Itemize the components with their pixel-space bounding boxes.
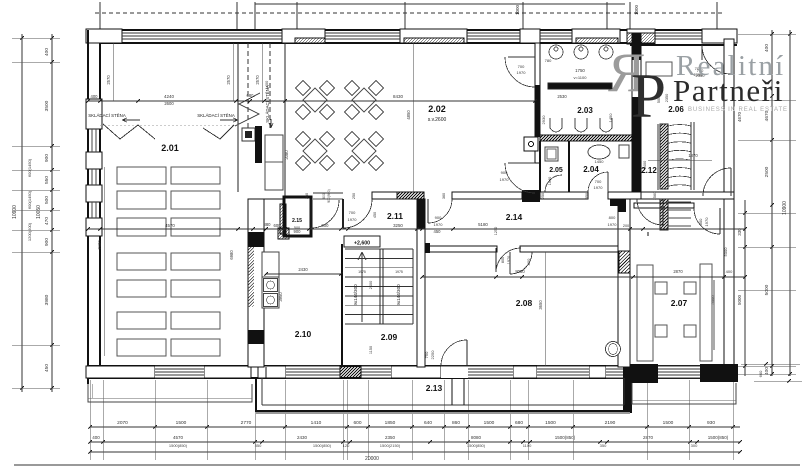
room 2.06 stair rail bbox=[690, 122, 692, 190]
svg-text:600: 600 bbox=[274, 223, 282, 228]
top wall outer line bbox=[86, 29, 737, 31]
room 2.05 fixture bbox=[545, 147, 558, 161]
svg-text:4570: 4570 bbox=[173, 435, 184, 440]
door 2.08 to terrace bbox=[441, 366, 468, 378]
door 2.08 from corridor bbox=[495, 248, 497, 272]
svg-text:2350: 2350 bbox=[385, 435, 396, 440]
wall 2.06 bottom bbox=[641, 192, 734, 199]
svg-text:8080: 8080 bbox=[515, 269, 525, 274]
svg-text:400: 400 bbox=[726, 269, 733, 274]
svg-text:250: 250 bbox=[352, 193, 356, 199]
svg-text:700: 700 bbox=[595, 179, 602, 184]
right overall chain 10900 bbox=[789, 30, 791, 376]
wall strip x248 vertical bbox=[248, 199, 264, 367]
svg-text:2500: 2500 bbox=[764, 166, 770, 177]
svg-text:900: 900 bbox=[44, 238, 50, 246]
room 2.02 chair group A bbox=[303, 88, 327, 112]
svg-text:900: 900 bbox=[322, 223, 330, 228]
svg-text:470: 470 bbox=[44, 217, 50, 225]
wall 2.10 top bbox=[264, 198, 284, 200]
svg-text:1500: 1500 bbox=[176, 420, 187, 426]
room 2.04 wc bbox=[619, 145, 629, 158]
room 2.03 urinals bbox=[550, 118, 562, 132]
room 2.08 basin bbox=[606, 342, 621, 357]
bottom overall chain 20000 bbox=[90, 451, 740, 453]
svg-text:2.11: 2.11 bbox=[387, 211, 403, 221]
terrace 2.13 outline bbox=[256, 366, 630, 411]
fire box on wall 2.02 bbox=[524, 137, 538, 151]
svg-text:2400: 2400 bbox=[369, 281, 373, 289]
staircase center rail bbox=[379, 249, 381, 324]
2.10 dims bbox=[266, 273, 341, 275]
svg-text:750: 750 bbox=[424, 351, 429, 358]
svg-text:2.13: 2.13 bbox=[426, 383, 443, 393]
door 2.08 interior bbox=[510, 252, 532, 274]
top wall inner line bbox=[100, 42, 630, 44]
svg-text:500: 500 bbox=[294, 226, 300, 230]
bottom wall piers bbox=[86, 366, 155, 378]
folding wall track dashed bbox=[100, 124, 238, 126]
corridor wall block B bbox=[610, 199, 627, 206]
bottom wall hatch block bbox=[328, 366, 376, 378]
svg-text:2570: 2570 bbox=[255, 75, 260, 85]
top solid line bbox=[255, 3, 625, 5]
svg-text:800: 800 bbox=[501, 257, 505, 263]
svg-text:3250: 3250 bbox=[393, 223, 403, 228]
svg-text:2.04: 2.04 bbox=[583, 165, 599, 174]
top wall window glazing bbox=[122, 32, 282, 34]
door 2.02 lower right bbox=[505, 163, 535, 193]
svg-text:3950: 3950 bbox=[278, 292, 283, 302]
corridor wall block A bbox=[522, 190, 540, 202]
svg-text:2870: 2870 bbox=[643, 435, 654, 440]
svg-text:1970: 1970 bbox=[348, 217, 358, 222]
wall 2.10 left hatch bbox=[188, 247, 315, 307]
wall 2.04 fixtures wall bbox=[539, 141, 541, 192]
svg-text:4670: 4670 bbox=[737, 111, 742, 122]
right inner chain bbox=[744, 200, 746, 376]
svg-text:1500(850): 1500(850) bbox=[555, 435, 576, 440]
right extension ticks bbox=[738, 33, 796, 35]
corridor lower wall y246 (2.08 top) bbox=[422, 246, 497, 252]
svg-text:2070: 2070 bbox=[117, 420, 128, 426]
svg-text:1500(850): 1500(850) bbox=[467, 443, 486, 448]
door 2.06 top bbox=[702, 45, 731, 74]
door 2.11 leaf bbox=[342, 199, 344, 228]
svg-text:3500: 3500 bbox=[44, 100, 50, 111]
room 2.12 hatch bbox=[629, 199, 702, 230]
svg-text:1410: 1410 bbox=[311, 420, 322, 426]
svg-text:640: 640 bbox=[424, 420, 432, 426]
bottom chain row 1 bbox=[90, 426, 740, 428]
svg-text:930: 930 bbox=[707, 420, 715, 426]
stairwell left wall bbox=[341, 244, 343, 367]
room 2.04 sink oval bbox=[588, 145, 610, 159]
porch bottom-left bbox=[88, 384, 252, 402]
wall 2.02 left bbox=[284, 43, 286, 199]
room 2.06 winder treads bbox=[668, 125, 691, 127]
door 2.14 to 2.07 area bbox=[662, 199, 664, 225]
svg-text:1500: 1500 bbox=[484, 420, 495, 426]
wall 2.12 area bbox=[647, 232, 649, 236]
staircase up arrow bbox=[358, 252, 366, 322]
svg-text:1400: 1400 bbox=[265, 81, 269, 89]
svg-text:3650: 3650 bbox=[538, 300, 543, 310]
svg-text:1970: 1970 bbox=[500, 177, 510, 182]
svg-text:1250: 1250 bbox=[494, 227, 498, 235]
svg-text:2.12: 2.12 bbox=[641, 166, 657, 175]
svg-text:4570: 4570 bbox=[165, 223, 175, 228]
door to 2.04 bbox=[607, 172, 609, 192]
svg-text:2.07: 2.07 bbox=[671, 298, 688, 308]
bottom wall bbox=[88, 365, 734, 367]
svg-text:350: 350 bbox=[600, 443, 607, 448]
wall 2.05/2.04 vertical bbox=[568, 141, 570, 192]
svg-text:2.15: 2.15 bbox=[292, 218, 302, 224]
svg-text:1970: 1970 bbox=[434, 222, 444, 227]
svg-text:880: 880 bbox=[264, 222, 272, 227]
svg-text:5000: 5000 bbox=[737, 294, 742, 305]
room 2.01 tables bbox=[117, 167, 166, 184]
bottom wall windows bbox=[155, 366, 204, 378]
wall 2.03 east vertical bbox=[632, 33, 641, 192]
svg-text:900(900): 900(900) bbox=[327, 189, 331, 203]
svg-text:SKLÁDACÍ STĚNA: SKLÁDACÍ STĚNA bbox=[197, 113, 235, 118]
corridor wall hatch bbox=[390, 192, 433, 199]
right corner dims bbox=[741, 363, 800, 365]
svg-text:2.01: 2.01 bbox=[161, 143, 179, 153]
room 2.03 shelf bbox=[548, 83, 612, 89]
wall 2.02/2.03 vertical bbox=[535, 43, 540, 163]
svg-text:1200(500): 1200(500) bbox=[27, 222, 32, 241]
svg-text:2530: 2530 bbox=[557, 94, 567, 99]
room 2.07 tv line bbox=[713, 280, 715, 350]
vertical dim 7480 bbox=[103, 167, 105, 356]
right segment chain bbox=[771, 30, 773, 376]
wall 2.08/2.07 hatch bbox=[597, 251, 653, 273]
svg-text:1150: 1150 bbox=[369, 346, 373, 354]
svg-text:20000: 20000 bbox=[365, 456, 379, 462]
svg-text:800: 800 bbox=[698, 218, 703, 225]
terrace entrance stub bbox=[451, 378, 453, 405]
svg-text:1975: 1975 bbox=[358, 270, 366, 274]
svg-text:250: 250 bbox=[541, 193, 545, 199]
svg-text:600: 600 bbox=[353, 420, 361, 426]
top wall piers bbox=[86, 29, 122, 43]
svg-text:5000: 5000 bbox=[710, 295, 715, 305]
folding wall pocket dashed lines bbox=[247, 43, 249, 130]
bottom chain row 2 bbox=[90, 441, 740, 443]
room 2.03 sinks bbox=[549, 45, 563, 59]
svg-text:2.05: 2.05 bbox=[549, 167, 563, 174]
svg-text:1970: 1970 bbox=[594, 185, 604, 190]
svg-text:2080: 2080 bbox=[284, 150, 289, 160]
svg-text:2930: 2930 bbox=[541, 115, 546, 125]
svg-text:800: 800 bbox=[609, 215, 616, 220]
svg-text:600(1450): 600(1450) bbox=[27, 158, 32, 177]
svg-text:1970: 1970 bbox=[517, 70, 527, 75]
svg-text:450: 450 bbox=[373, 212, 377, 218]
room 2.15 hatch corner bbox=[267, 228, 302, 239]
svg-text:1850: 1850 bbox=[385, 420, 396, 426]
svg-text:2190: 2190 bbox=[605, 420, 616, 426]
svg-text:1000: 1000 bbox=[515, 4, 520, 15]
svg-text:2430: 2430 bbox=[297, 435, 308, 440]
svg-text:7480: 7480 bbox=[97, 240, 102, 250]
svg-text:+2,600: +2,600 bbox=[354, 241, 370, 247]
svg-text:2.03: 2.03 bbox=[577, 106, 593, 115]
svg-text:1500(850): 1500(850) bbox=[169, 443, 188, 448]
svg-text:P: P bbox=[631, 61, 666, 131]
door corridor to 2.02 bbox=[310, 199, 312, 228]
top wall hatch strips bbox=[290, 38, 331, 43]
svg-text:680: 680 bbox=[247, 93, 255, 98]
upper interior dim line y101 bbox=[88, 100, 535, 102]
svg-text:600(1450): 600(1450) bbox=[27, 190, 32, 209]
svg-text:1870: 1870 bbox=[688, 153, 698, 158]
svg-text:350: 350 bbox=[305, 193, 309, 199]
door 2.07 top bbox=[719, 208, 721, 234]
vertical dim 4850 bbox=[412, 43, 414, 192]
svg-text:2570: 2570 bbox=[226, 75, 231, 85]
svg-text:400: 400 bbox=[92, 435, 100, 440]
svg-text:8430: 8430 bbox=[393, 94, 404, 99]
svg-text:2570: 2570 bbox=[106, 75, 111, 85]
svg-text:550: 550 bbox=[44, 176, 50, 184]
svg-text:2.09: 2.09 bbox=[381, 332, 398, 342]
svg-text:350: 350 bbox=[585, 193, 589, 199]
terrace shadow line bbox=[256, 412, 630, 414]
folding wall zigzag vertical bbox=[235, 93, 260, 126]
svg-text:900: 900 bbox=[501, 170, 508, 175]
svg-text:350: 350 bbox=[255, 443, 262, 448]
mid dim chain y229 bbox=[88, 228, 745, 230]
left wall bbox=[87, 30, 89, 384]
room 2.07 sofa right bbox=[700, 264, 712, 361]
room 2.15 walls bbox=[284, 197, 311, 236]
wall 2.03/2.04 hatched band bbox=[534, 135, 639, 141]
door 2.06 to 2.12 bbox=[703, 168, 731, 196]
svg-text:1500: 1500 bbox=[545, 420, 556, 426]
svg-text:1500: 1500 bbox=[663, 420, 674, 426]
svg-text:SKLÁDACÍ STĚNA: SKLÁDACÍ STĚNA bbox=[265, 85, 270, 123]
left wall piers and windows bbox=[86, 99, 102, 129]
svg-text:10050: 10050 bbox=[36, 205, 42, 219]
svg-text:v=1100: v=1100 bbox=[574, 75, 588, 80]
room 2.15 hatch left bbox=[250, 204, 319, 234]
2.08 dims bbox=[544, 252, 546, 366]
room 2.12 treads bbox=[668, 201, 691, 203]
wall 2.07 top bbox=[634, 203, 694, 208]
svg-text:1560: 1560 bbox=[653, 192, 657, 200]
bottom extension lines bbox=[89, 380, 91, 460]
svg-text:2430: 2430 bbox=[298, 267, 308, 272]
svg-text:200: 200 bbox=[623, 224, 629, 228]
dim line y277 through 2.08 and 2.07 bbox=[422, 276, 745, 278]
svg-text:2600: 2600 bbox=[164, 101, 174, 106]
bottom border line bbox=[14, 464, 800, 466]
svg-text:1500(850): 1500(850) bbox=[708, 435, 729, 440]
folding wall zigzag 1 bbox=[103, 124, 155, 139]
bottom wall solid segment bbox=[630, 364, 658, 383]
svg-text:4240: 4240 bbox=[164, 94, 175, 99]
svg-text:1450: 1450 bbox=[595, 159, 605, 164]
svg-text:780: 780 bbox=[545, 58, 552, 63]
svg-text:6980: 6980 bbox=[229, 250, 234, 260]
folding wall zigzag 2 bbox=[203, 125, 234, 139]
svg-text:700: 700 bbox=[349, 210, 356, 215]
svg-text:1970: 1970 bbox=[704, 217, 709, 227]
svg-text:2870: 2870 bbox=[673, 269, 683, 274]
staircase 2.09 treads bbox=[345, 248, 413, 250]
svg-text:360: 360 bbox=[442, 193, 446, 199]
left overall chain 10900 bbox=[21, 34, 23, 392]
vertical dims 2570 bbox=[112, 43, 114, 101]
room 2.07 sofa left bbox=[637, 265, 653, 361]
svg-text:1975: 1975 bbox=[395, 270, 403, 274]
svg-text:900: 900 bbox=[435, 215, 442, 220]
svg-text:5000: 5000 bbox=[723, 247, 728, 257]
room 2.07 chairs bbox=[655, 282, 667, 294]
svg-text:1500(2150): 1500(2150) bbox=[380, 443, 401, 448]
svg-text:400: 400 bbox=[44, 48, 50, 56]
wall 2.10 left lower bbox=[265, 367, 267, 378]
svg-text:2770: 2770 bbox=[241, 420, 252, 426]
svg-text:900: 900 bbox=[44, 154, 50, 162]
svg-text:860: 860 bbox=[452, 420, 460, 426]
svg-text:600: 600 bbox=[322, 193, 326, 199]
svg-text:300: 300 bbox=[691, 443, 698, 448]
main corridor wall y192 bbox=[372, 192, 424, 199]
svg-text:1450: 1450 bbox=[608, 113, 613, 123]
svg-text:400: 400 bbox=[91, 94, 99, 99]
door 2.02 top right bbox=[505, 57, 535, 87]
terrace right wall stub bbox=[623, 366, 632, 413]
room 2.06 closet bbox=[646, 62, 672, 76]
svg-text:SKLÁDACÍ STĚNA: SKLÁDACÍ STĚNA bbox=[88, 113, 126, 118]
svg-text:680: 680 bbox=[515, 420, 523, 426]
svg-text:1000: 1000 bbox=[634, 4, 639, 15]
right wall bbox=[724, 39, 734, 376]
svg-text:800: 800 bbox=[526, 258, 531, 265]
svg-text:1500(850): 1500(850) bbox=[313, 443, 332, 448]
svg-text:450: 450 bbox=[434, 229, 442, 234]
wall 2.01 right thin bbox=[237, 43, 239, 192]
svg-text:5180: 5180 bbox=[478, 222, 488, 227]
svg-text:BUSINESS IN REAL ESTATE: BUSINESS IN REAL ESTATE bbox=[688, 107, 788, 113]
svg-text:2.08: 2.08 bbox=[516, 298, 533, 308]
room 2.10 kitchen counter bbox=[262, 252, 279, 277]
svg-text:s.v.2600: s.v.2600 bbox=[428, 117, 447, 123]
stairwell right wall bbox=[417, 199, 425, 367]
svg-text:8080: 8080 bbox=[471, 435, 482, 440]
room 2.06 winder stairs hatch bbox=[595, 124, 735, 189]
svg-text:2.02: 2.02 bbox=[428, 104, 446, 114]
svg-text:2.10: 2.10 bbox=[295, 329, 312, 339]
svg-text:4850: 4850 bbox=[406, 110, 411, 120]
top boundary dashed line bbox=[95, 12, 722, 14]
svg-text:3980: 3980 bbox=[44, 294, 50, 305]
svg-text:450: 450 bbox=[44, 364, 50, 372]
wall 2.08/2.07 bbox=[618, 199, 630, 367]
staircase level label +2600 bbox=[344, 236, 380, 247]
svg-text:1970: 1970 bbox=[608, 222, 618, 227]
storage room cabinets bbox=[242, 128, 255, 141]
top extension lines bbox=[99, 2, 101, 30]
porch below 2.07 bbox=[632, 383, 736, 404]
svg-text:500: 500 bbox=[44, 196, 50, 204]
svg-text:9x144/300: 9x144/300 bbox=[396, 284, 401, 306]
svg-text:1100: 1100 bbox=[523, 443, 532, 448]
svg-text:120: 120 bbox=[343, 443, 350, 448]
svg-text:1750: 1750 bbox=[575, 68, 585, 73]
door 2.11/2.14 bbox=[427, 199, 429, 223]
wall 2.06 stair left rail bbox=[657, 124, 659, 190]
svg-text:9x144/300: 9x144/300 bbox=[353, 284, 358, 306]
left segment chain bbox=[51, 34, 53, 392]
svg-text:10900: 10900 bbox=[12, 205, 18, 219]
svg-text:700: 700 bbox=[518, 64, 525, 69]
svg-text:Partneři: Partneři bbox=[673, 73, 784, 108]
svg-text:2250: 2250 bbox=[430, 350, 435, 360]
svg-text:600: 600 bbox=[758, 370, 763, 377]
svg-text:2.14: 2.14 bbox=[506, 212, 523, 222]
left extension ticks bbox=[12, 37, 60, 39]
